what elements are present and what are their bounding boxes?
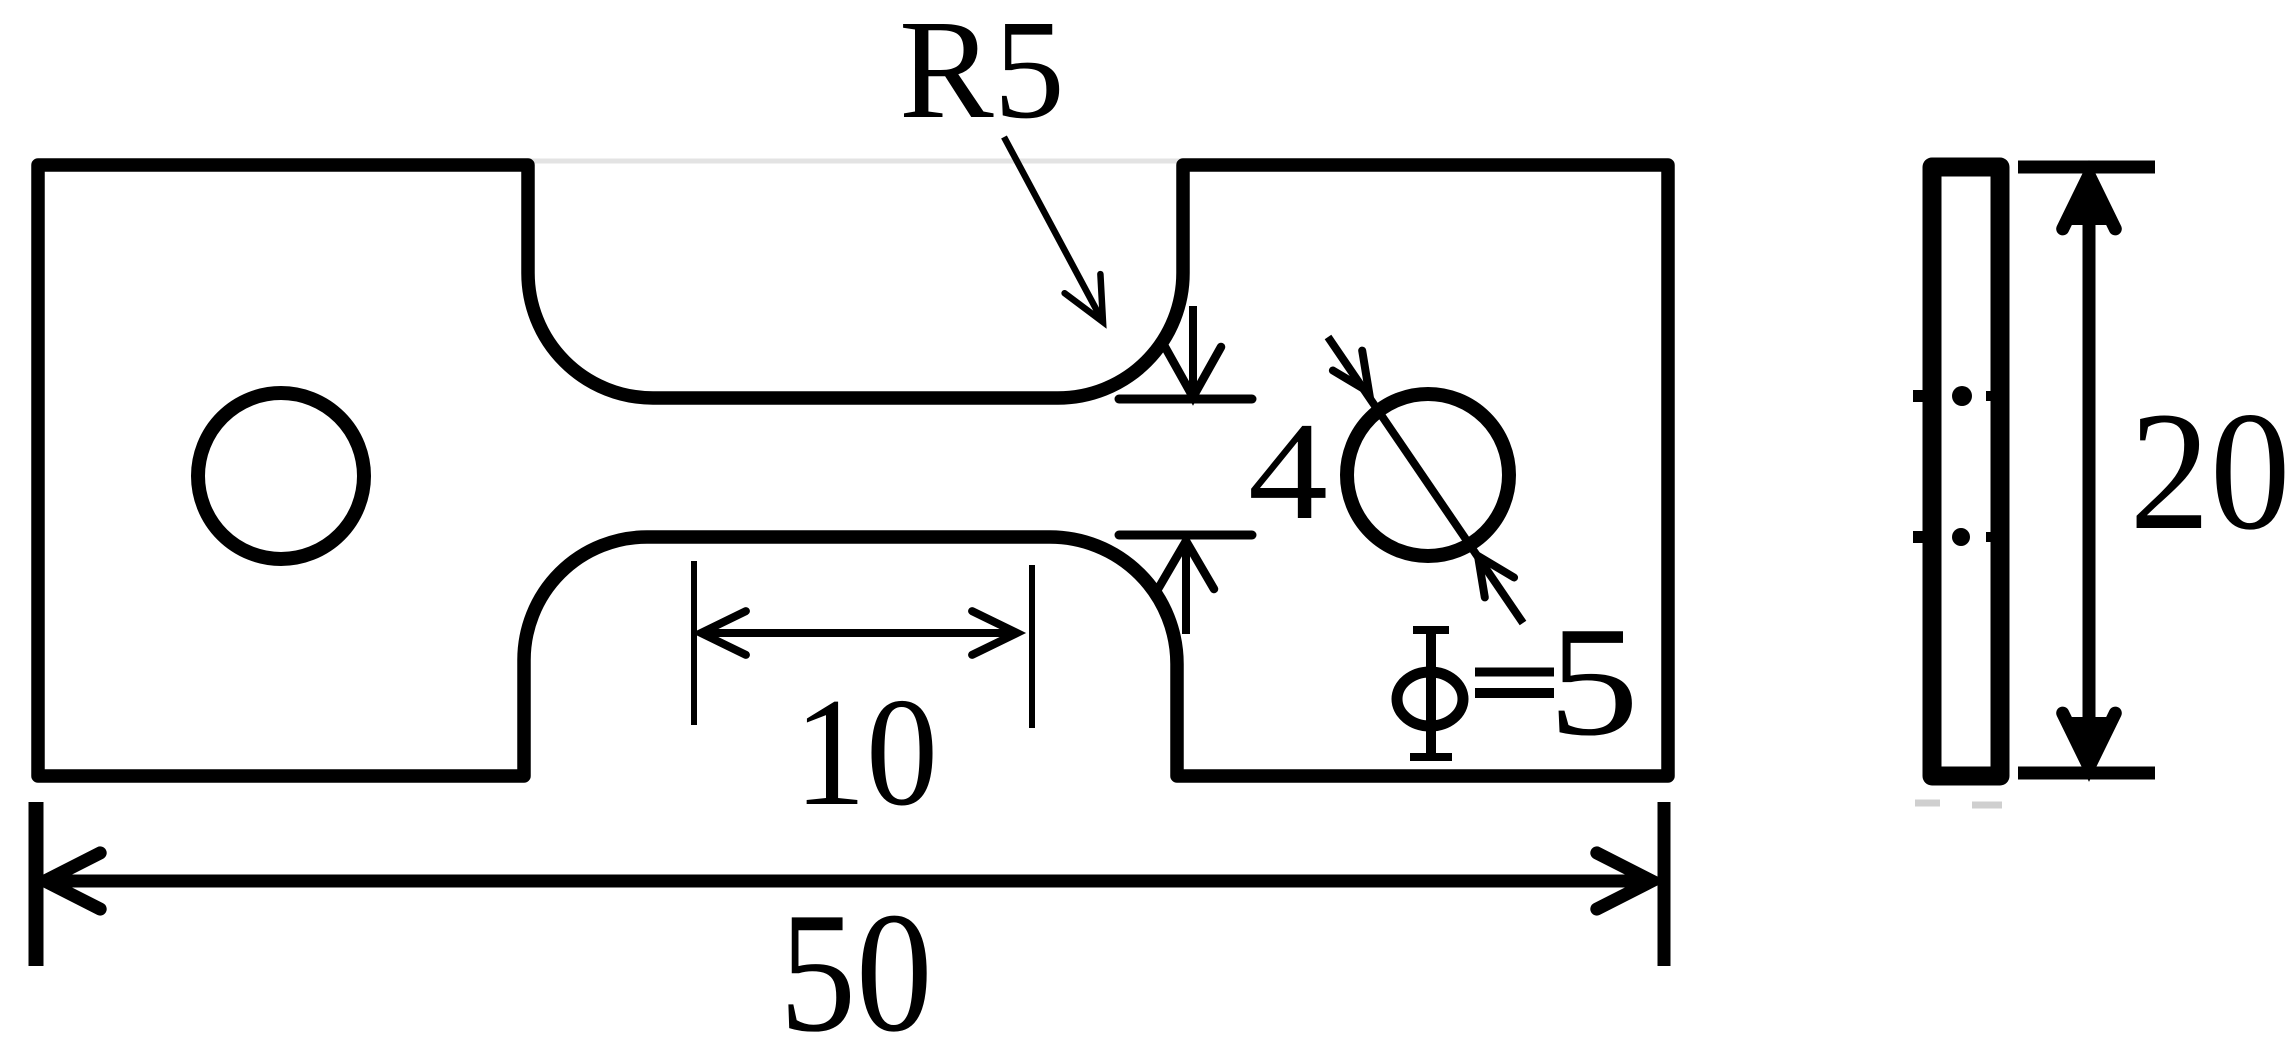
dim 4 bottom tick bbox=[1119, 531, 1252, 540]
hole leader upper arrowhead bbox=[1333, 351, 1369, 392]
dim 4 down arrow shaft bbox=[1189, 306, 1197, 395]
dim 50 right extension line bbox=[1658, 802, 1671, 966]
side view rectangle bbox=[1932, 167, 2000, 776]
svg-text:R5: R5 bbox=[899, 0, 1065, 148]
faint scan artifact line between grip tops bbox=[500, 159, 1190, 164]
svg-text:50: 50 bbox=[780, 878, 933, 1051]
dim 50 left arrowhead bbox=[45, 853, 100, 909]
specimen outline (front view, dog-bone) bbox=[38, 165, 1668, 776]
equals sign bbox=[1475, 668, 1554, 677]
dim 10 right arrowhead bbox=[972, 611, 1017, 655]
label phi (hole diameter symbol) bbox=[1397, 630, 1463, 758]
side view lower gauge tick bbox=[1913, 531, 1930, 543]
svg-text:10: 10 bbox=[794, 666, 938, 838]
svg-text:20: 20 bbox=[2130, 377, 2288, 565]
dim 10 left arrowhead bbox=[701, 611, 746, 655]
side view bottom faint dashes bbox=[1915, 800, 1940, 807]
dim 4 up arrow shaft bbox=[1182, 543, 1190, 634]
hole diameter leader line (45 deg through hole) bbox=[1328, 337, 1523, 623]
dim 20 bottom arrowhead bbox=[2063, 713, 2116, 767]
dim 10 arrow shaft bbox=[703, 629, 1015, 637]
dim 20 top extension line bbox=[2018, 161, 2155, 174]
R5 leader line bbox=[1004, 137, 1103, 322]
svg-text:5: 5 bbox=[1548, 594, 1639, 768]
svg-text:4: 4 bbox=[1248, 394, 1328, 549]
dim 20 bottom extension line bbox=[2018, 767, 2155, 780]
dim 10 left extension tick bbox=[691, 561, 697, 725]
dim 4 up arrowhead bbox=[1158, 541, 1214, 589]
dim 50 left extension line bbox=[29, 802, 44, 966]
dim 20 arrow shaft bbox=[2083, 177, 2096, 765]
dim 20 top arrowhead bbox=[2063, 175, 2116, 229]
dim 50 arrow shaft bbox=[47, 875, 1650, 888]
dim 4 down arrowhead bbox=[1165, 347, 1221, 397]
dim 50 right arrowhead bbox=[1597, 853, 1652, 909]
R5 leader arrowhead bbox=[1065, 274, 1103, 322]
dim 4 top tick bbox=[1119, 395, 1252, 404]
hole right (phi=5) bbox=[1347, 394, 1509, 556]
side view lower dot bbox=[1952, 528, 1970, 546]
hole leader lower arrowhead bbox=[1478, 556, 1514, 597]
hole left bbox=[198, 393, 364, 559]
dim 10 right extension tick bbox=[1029, 565, 1035, 728]
side view upper gauge tick bbox=[1913, 390, 1930, 402]
side view upper dot bbox=[1952, 386, 1972, 406]
